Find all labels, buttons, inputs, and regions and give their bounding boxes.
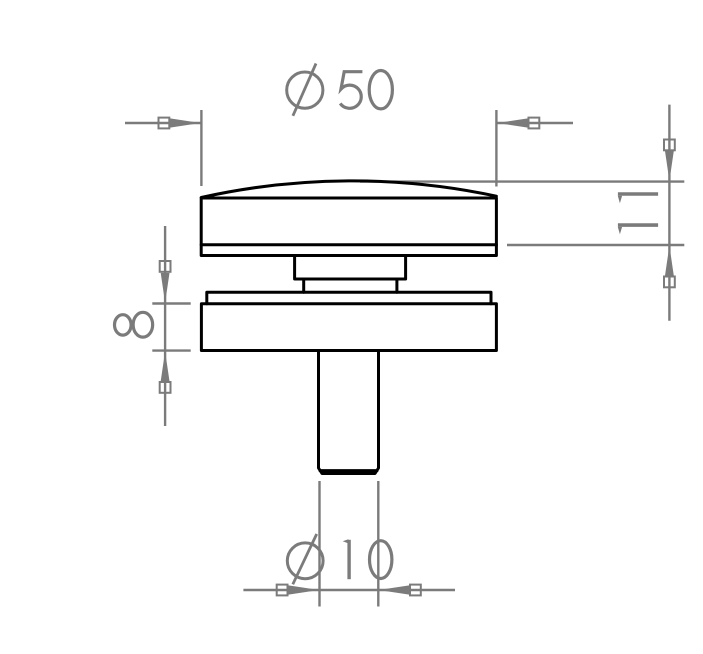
- dimension 8: bottom arrowhead tail square: [160, 382, 171, 393]
- dimension Ø50: right arrowhead tail square: [529, 118, 540, 129]
- part: stem outline with chamfered bottom: [319, 351, 379, 474]
- dimension 11: value digit 1 (rotated, upper): [618, 194, 658, 203]
- dimension Ø50: left arrowhead: [170, 118, 201, 127]
- dimension Ø50: dimension line leaders: [125, 122, 573, 124]
- dimension Ø10: diameter symbol: [287, 534, 323, 584]
- dimension Ø50: diameter symbol: [287, 64, 323, 116]
- dimension 8: bottom arrowhead: [161, 351, 170, 381]
- part: plate top lip: [207, 292, 491, 303]
- dimension 8: dimension line: [164, 226, 166, 426]
- dimension 11: top arrowhead: [665, 151, 674, 181]
- dimension Ø50: value digit 5: [340, 72, 362, 109]
- part: cap bottom rim line: [201, 243, 496, 246]
- dimension Ø10: right arrowhead: [379, 585, 410, 594]
- dimension 8: value digit 8 (rotated): [115, 312, 153, 337]
- dimension 8: bottom extension line: [152, 349, 190, 351]
- dimension Ø10: value digit 0: [370, 541, 392, 579]
- part: plate body: [201, 304, 496, 351]
- dimension 11: bottom arrowhead: [665, 246, 674, 276]
- part: cap body outline: [201, 198, 496, 256]
- dimension Ø50: right arrowhead: [497, 118, 528, 127]
- part: neck upper block: [295, 256, 406, 280]
- dimension Ø10: right arrowhead tail square: [410, 585, 421, 596]
- dimension Ø50: value digit 0: [369, 71, 392, 109]
- dimension Ø50: left arrowhead tail square: [159, 118, 170, 129]
- part: neck lower step right edge: [395, 279, 398, 292]
- dimension 8: top extension line: [152, 302, 190, 304]
- dimension 11: bottom arrowhead tail square: [664, 277, 675, 288]
- dimension Ø10: left extension line: [318, 481, 320, 607]
- dimension 11: top arrowhead tail square: [664, 140, 675, 151]
- part: neck lower step left edge: [302, 279, 305, 292]
- dimension 11: value digit 1 (rotated, lower): [618, 225, 658, 234]
- dimension Ø10: left arrowhead: [289, 585, 320, 594]
- dimension 11: bottom extension line: [507, 244, 684, 246]
- dimension Ø10: left arrowhead tail square: [277, 585, 288, 596]
- part: cap top dome arc: [201, 181, 496, 198]
- dimension 11: top extension line: [360, 180, 684, 182]
- dimension 8: top arrowhead: [161, 273, 170, 303]
- dimension Ø50: left extension line: [200, 110, 202, 186]
- dimension Ø50: right extension line: [495, 110, 497, 187]
- dimension 11: dimension line: [668, 105, 670, 321]
- dimension Ø10: value digit 1: [343, 539, 349, 579]
- part: stem bottom chamfer line: [320, 469, 377, 472]
- dimension Ø10: dimension line: [243, 589, 455, 591]
- dimension Ø10: right extension line: [377, 481, 379, 607]
- dimension 8: top arrowhead tail square: [160, 261, 171, 272]
